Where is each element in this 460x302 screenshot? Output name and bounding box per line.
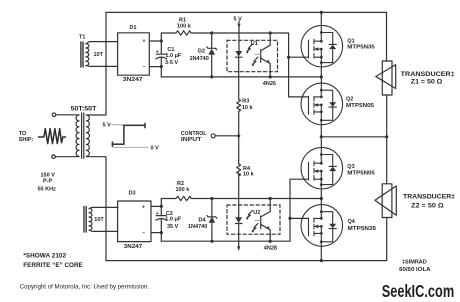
svg-text:D4: D4 xyxy=(199,218,207,224)
svg-text:D1: D1 xyxy=(130,25,137,31)
svg-text:D3: D3 xyxy=(129,191,136,197)
transformer T3 xyxy=(84,207,92,233)
node U2 emitter on rail xyxy=(269,240,272,243)
zener diode D4 xyxy=(207,199,217,242)
node D3 minus xyxy=(160,231,163,234)
wire LED chain through R3 xyxy=(238,57,240,100)
resistor R3 xyxy=(237,99,241,111)
svg-text:–: – xyxy=(142,231,145,237)
svg-text:P-P: P-P xyxy=(43,179,53,185)
node D2 top xyxy=(210,31,213,34)
wire T1 secondary leads xyxy=(87,42,118,67)
svg-text:MTP5N35: MTP5N35 xyxy=(347,45,375,51)
svg-text:10T: 10T xyxy=(94,52,104,58)
terminal control input xyxy=(211,134,215,138)
svg-text:Q3: Q3 xyxy=(347,164,354,170)
optocoupler U1 xyxy=(227,40,278,71)
zener diode D2 xyxy=(207,33,217,77)
wire C1 bottom to rail xyxy=(160,67,162,77)
svg-text:TRANSDUCER‡: TRANSDUCER‡ xyxy=(401,71,456,78)
svg-text:Q2: Q2 xyxy=(346,97,353,103)
svg-text:Q4: Q4 xyxy=(348,219,356,225)
svg-text:+: + xyxy=(156,211,159,217)
bridge rectifier D1 xyxy=(118,33,150,75)
wire Z1 bottom to node xyxy=(386,95,388,137)
svg-text:Copyright of Motorola, Inc. Us: Copyright of Motorola, Inc. Used by perm… xyxy=(20,284,150,291)
svg-text:100 k: 100 k xyxy=(176,187,191,193)
svg-text:1N4740: 1N4740 xyxy=(188,224,207,230)
svg-text:5 V: 5 V xyxy=(103,123,112,129)
svg-text:+: + xyxy=(142,205,145,211)
transformer T2 50T:50T xyxy=(76,113,89,158)
svg-text:SeekIC.com: SeekIC.com xyxy=(382,281,455,301)
transducer Z1 xyxy=(376,61,396,95)
wire Q3 source to Q4 drain xyxy=(320,189,322,205)
node D4 bottom xyxy=(210,240,213,243)
svg-text:+: + xyxy=(143,39,146,45)
svg-text:*SHOWA 2102: *SHOWA 2102 xyxy=(23,253,66,260)
node top-rail/Q1-drain junction xyxy=(320,11,323,14)
node control input junction xyxy=(237,134,240,137)
resistor R4 xyxy=(237,164,241,176)
wire gate rail upper xyxy=(212,33,309,97)
svg-text:4N28: 4N28 xyxy=(264,246,277,252)
5V arrowhead xyxy=(237,24,240,29)
svg-text:Z1 = 50 Ω: Z1 = 50 Ω xyxy=(411,80,443,86)
svg-text:U1: U1 xyxy=(251,41,258,47)
wire control node to R4 xyxy=(238,136,240,164)
transducer Z2 xyxy=(375,184,396,218)
svg-text:MTP5N35: MTP5N35 xyxy=(348,226,377,232)
svg-text:4N26: 4N26 xyxy=(263,81,276,87)
svg-text:3N247: 3N247 xyxy=(124,244,143,250)
node Q1 gate tap xyxy=(287,56,290,59)
node D1 plus xyxy=(160,39,163,42)
node C Q2 source / Q3 drain xyxy=(320,135,323,138)
wire D1 outputs xyxy=(149,41,161,67)
svg-text:3N247: 3N247 xyxy=(123,77,143,83)
wire source rail A (D1 minus to node A) xyxy=(161,76,321,78)
svg-text:60/50 IOLA: 60/50 IOLA xyxy=(399,267,431,273)
wire node C to transducer column xyxy=(321,136,386,138)
node D4 top xyxy=(210,197,213,200)
bridge rectifier D3 xyxy=(118,201,151,242)
node U2 collector on rail xyxy=(269,197,272,200)
node transducer mid junction xyxy=(385,135,388,138)
svg-text:MTP5N05: MTP5N05 xyxy=(346,103,374,109)
transistor Q1 xyxy=(301,25,343,67)
resistor R1 xyxy=(161,31,211,41)
terminal ship top xyxy=(52,113,56,117)
svg-text:50T:50T: 50T:50T xyxy=(71,107,97,113)
svg-text:U2: U2 xyxy=(253,210,260,216)
svg-text:MTP5N05: MTP5N05 xyxy=(347,171,375,177)
wire Q1 gate tap xyxy=(289,56,309,58)
svg-text:Z2 = 50 Ω: Z2 = 50 Ω xyxy=(411,203,444,209)
wire U2 emitter down xyxy=(269,234,271,241)
wire Z2 top to node xyxy=(386,137,388,184)
svg-text:100 k: 100 k xyxy=(177,24,192,30)
svg-text:SHIP:: SHIP: xyxy=(19,137,34,143)
transistor Q4 xyxy=(301,205,343,247)
transformer T1 xyxy=(81,42,89,67)
capacitor C2 xyxy=(156,206,167,232)
svg-text:10 k: 10 k xyxy=(242,105,254,111)
wire 5V feed and LED chain xyxy=(238,21,240,51)
svg-text:+: + xyxy=(156,50,159,56)
svg-text:T1: T1 xyxy=(79,35,85,41)
wire T3 secondary leads xyxy=(90,207,118,231)
wire LED2 chain bottom arrow xyxy=(238,223,240,247)
svg-text:–: – xyxy=(143,65,146,71)
svg-text:35 V: 35 V xyxy=(167,224,179,230)
wire T2 secondary bottom to bottom link xyxy=(86,157,386,261)
wire T2 primary leads xyxy=(55,115,79,157)
wire gate rail lower to node B xyxy=(212,198,321,200)
svg-text:0 V: 0 V xyxy=(151,146,160,152)
node U1 collector on rail xyxy=(269,31,272,34)
node Q4 source on bottom link xyxy=(320,259,323,262)
wire Q4 gate tap xyxy=(290,217,309,219)
node Q4 gate tap xyxy=(288,217,291,220)
wire D3 outputs xyxy=(151,206,161,232)
wire Q4 source down xyxy=(320,246,322,260)
LED chain bottom arrowhead xyxy=(237,246,240,251)
svg-text:TRANSDUCER‡: TRANSDUCER‡ xyxy=(403,193,456,200)
node A Q1 source / Q2 drain xyxy=(320,75,323,78)
node D3 plus xyxy=(160,205,163,208)
wire bottom rail xyxy=(161,179,308,241)
svg-text:5 V: 5 V xyxy=(234,17,243,23)
wire R3 to control node xyxy=(238,111,240,136)
node B Q3 source / Q4 drain xyxy=(320,197,323,200)
svg-text:10 k: 10 k xyxy=(243,172,255,178)
capacitor C1 xyxy=(156,41,167,67)
transistor Q3 xyxy=(301,147,343,189)
wire T2 secondary top to vertical xyxy=(86,114,106,116)
wire U1 emitter down xyxy=(269,72,271,77)
wire R4 to U2 LED xyxy=(238,174,240,217)
connector 5V/0V jumper xyxy=(112,123,149,147)
node U1 emitter on rail xyxy=(269,75,272,78)
svg-text:1.0 μF: 1.0 μF xyxy=(165,217,182,223)
svg-text:3-5 V: 3-5 V xyxy=(165,60,178,66)
svg-text:‡SIMRAD: ‡SIMRAD xyxy=(402,260,427,266)
node D1 minus xyxy=(160,65,163,68)
svg-text:1N4740: 1N4740 xyxy=(190,56,209,62)
wire Q2 source to Q3 drain xyxy=(320,125,322,148)
svg-text:10T: 10T xyxy=(94,217,104,223)
wire Q1 source to Q2 drain xyxy=(320,67,322,83)
svg-text:FERRITE “E” CORE: FERRITE “E” CORE xyxy=(23,262,82,269)
terminal ship bottom xyxy=(52,155,56,159)
resistor R2 xyxy=(161,196,212,206)
wire top rail xyxy=(106,12,387,114)
transistor Q2 xyxy=(301,83,343,125)
optocoupler U2 xyxy=(227,205,280,234)
svg-text:50 KHz: 50 KHz xyxy=(38,187,57,193)
svg-text:1.0 μF: 1.0 μF xyxy=(165,53,182,59)
svg-text:INPUT: INPUT xyxy=(181,137,202,143)
svg-text:D2: D2 xyxy=(198,49,205,55)
wire U1 collector up xyxy=(269,33,271,40)
wire U2 collector up xyxy=(269,199,271,206)
wire C2 bottom to bottom rail xyxy=(160,233,162,242)
svg-text:R3: R3 xyxy=(242,99,249,105)
signal burst to ship xyxy=(39,129,66,144)
node D2 bottom xyxy=(210,75,213,78)
wire control input xyxy=(215,135,239,137)
wire Q1 drain xyxy=(320,12,322,25)
